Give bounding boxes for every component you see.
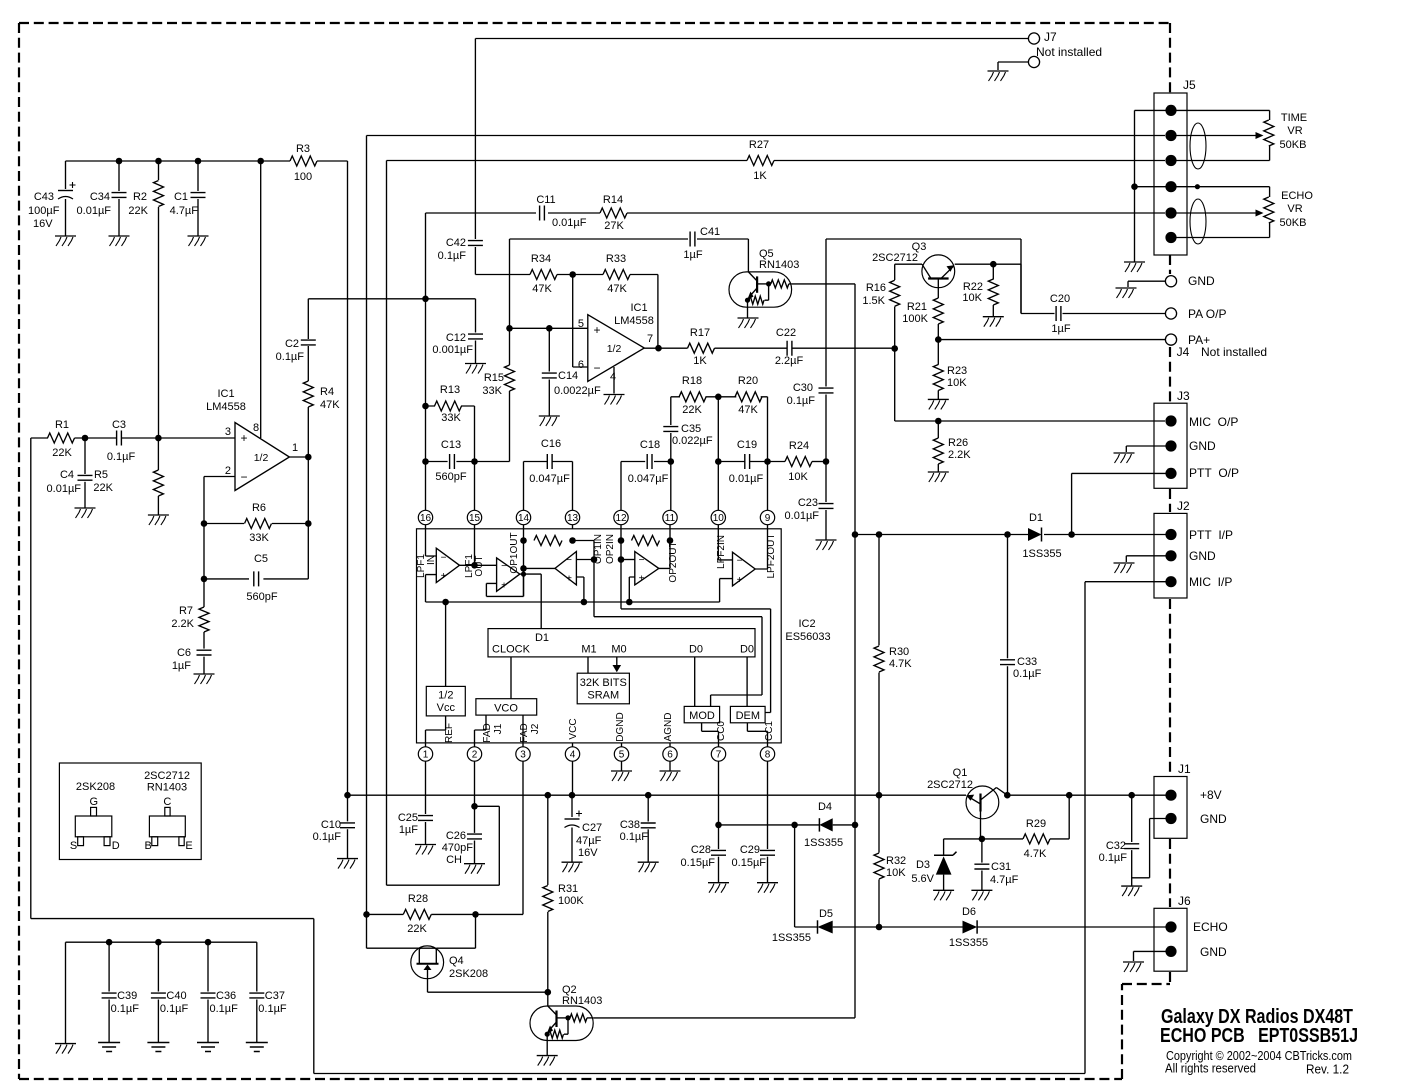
svg-text:0.1µF: 0.1µF [1099, 852, 1128, 864]
capacitor C34 [118, 161, 120, 191]
svg-text:IC2: IC2 [798, 618, 815, 630]
svg-text:D1: D1 [1029, 512, 1043, 524]
svg-text:0.022µF: 0.022µF [672, 435, 713, 447]
svg-text:PTT I/P: PTT I/P [1189, 528, 1233, 542]
junction R34-R33 [569, 271, 576, 278]
svg-text:J7: J7 [1044, 30, 1057, 44]
wire D1 signal vertical [520, 574, 541, 629]
ground C1 [188, 235, 209, 237]
junction R6-output-vert [305, 520, 312, 527]
op-amp IC2 T3 [555, 552, 576, 585]
junction pin14-res1 [520, 537, 527, 544]
wire J3 GND [1126, 446, 1165, 452]
svg-text:LM4558: LM4558 [206, 401, 246, 413]
wire MOD to pin7 [702, 723, 719, 743]
wire ECHO top [1176, 187, 1270, 197]
junction rail-C34 [116, 158, 123, 165]
capacitor C30 [819, 388, 834, 393]
wire pin13 to T3 [573, 541, 595, 560]
svg-text:0.1µF: 0.1µF [438, 250, 467, 262]
svg-text:J3: J3 [1177, 389, 1190, 403]
svg-text:5: 5 [619, 750, 625, 761]
svg-text:16V: 16V [578, 847, 598, 859]
connector J1 box [1154, 777, 1187, 839]
diode D4 [818, 818, 820, 831]
connector J2 pin MIC I/P [1165, 576, 1176, 587]
svg-text:1/2: 1/2 [438, 690, 453, 702]
arrow ECHO wiper [1256, 210, 1264, 217]
resistor IC2 internal 2 [632, 536, 660, 546]
junction pin2-R6 [201, 520, 208, 527]
wire TIME wiper [1176, 135, 1257, 137]
ground C36 [197, 1043, 219, 1052]
wire J5-pin2 net vertical [366, 136, 368, 915]
pin 7 IC2 [711, 747, 725, 761]
potentiometer ECHO VR [1264, 197, 1274, 223]
wire VCO to pin2 [475, 715, 487, 743]
wire opamp2 output [644, 347, 687, 349]
svg-text:R15: R15 [484, 372, 504, 384]
junction J5 pin4 gnd [1131, 183, 1138, 190]
cable ellipse 2 [1190, 199, 1206, 244]
pin 11 IC2 [663, 510, 677, 524]
svg-text:C35: C35 [681, 423, 701, 435]
resistor R5 [157, 438, 159, 470]
svg-text:0.1µF: 0.1µF [258, 1003, 287, 1015]
capacitor C36 [205, 939, 212, 946]
wire D3 jog [944, 839, 982, 855]
svg-text:GND: GND [1188, 274, 1215, 288]
junction C19-pin10 [715, 458, 722, 465]
block 32K BITS SRAM [577, 673, 629, 704]
svg-text:2SC2712: 2SC2712 [872, 252, 918, 264]
svg-text:C32: C32 [1106, 840, 1126, 852]
junction rail-Q1 [1004, 792, 1011, 799]
svg-text:DGND: DGND [615, 712, 626, 741]
wire R16 bottom [894, 307, 896, 349]
resistor R6 [204, 523, 308, 525]
ground opamp2 pin4 [604, 394, 625, 396]
svg-text:VR: VR [1287, 125, 1302, 137]
connector J3 pin PTT O/P [1165, 468, 1176, 479]
svg-text:ECHO: ECHO [1193, 920, 1228, 934]
svg-text:+: + [240, 431, 247, 445]
pin 15 IC2 [467, 510, 481, 524]
capacitor C4 [84, 438, 86, 474]
resistor R17 [688, 343, 715, 353]
transistor Q2 [530, 1006, 593, 1041]
svg-text:47K: 47K [320, 399, 340, 411]
capacitor C40 [155, 939, 162, 946]
ground C14 [539, 415, 560, 417]
op-amp IC1b [588, 315, 645, 382]
connector GND pin [1165, 276, 1176, 287]
capacitor C22 [787, 341, 792, 356]
connector J5 pin1 [1165, 105, 1176, 116]
wire ECHO wiper [1176, 212, 1257, 214]
svg-text:5.6V: 5.6V [911, 873, 934, 885]
svg-text:Q1: Q1 [953, 767, 968, 779]
resistor R14 [600, 208, 627, 218]
wire J7 line [475, 38, 1028, 40]
svg-text:E: E [185, 840, 192, 852]
ground C39 [98, 1043, 120, 1052]
svg-text:D0: D0 [740, 644, 754, 656]
ground C12 [465, 363, 486, 365]
svg-text:−: − [566, 555, 572, 566]
junction rail-C10 [344, 792, 351, 799]
wire OP1 + loop [486, 574, 523, 596]
wire R4/C2 vertical [307, 299, 309, 579]
wire opamp pin8 supply [260, 161, 262, 438]
ground J6 [1123, 961, 1144, 963]
connector J3 pin MIC O/P [1165, 415, 1176, 426]
package RN1403 outline [149, 816, 185, 837]
junction C3-R5 [155, 435, 162, 442]
svg-text:R20: R20 [738, 375, 758, 387]
svg-text:J2: J2 [1177, 499, 1190, 513]
junction R21-R23-PA+ [935, 336, 942, 343]
svg-text:RN1403: RN1403 [759, 259, 799, 271]
svg-text:0.01µF: 0.01µF [552, 217, 587, 229]
resistor IC2 internal 1 [534, 536, 562, 546]
ground C32 [1121, 885, 1142, 887]
svg-text:7: 7 [716, 750, 722, 761]
ground C34 [109, 235, 130, 237]
wire T3 out [524, 567, 556, 569]
svg-text:11: 11 [665, 513, 676, 524]
svg-text:J6: J6 [1178, 894, 1191, 908]
sheet dashed border (top/left/bottom) [19, 23, 1170, 1079]
svg-text:14: 14 [518, 513, 530, 524]
junction pin12-res2 [618, 537, 625, 544]
svg-text:7: 7 [647, 333, 653, 345]
wire CLOCK to VCO [510, 657, 512, 699]
connector J5 pin2 [1165, 130, 1176, 141]
svg-text:C38: C38 [620, 819, 640, 831]
svg-text:1µF: 1µF [1051, 323, 1070, 335]
ground R22 [983, 316, 1004, 318]
junction pin16-R13 [422, 403, 429, 410]
svg-text:0.15µF: 0.15µF [681, 857, 716, 869]
pin 1 IC2 [418, 747, 432, 761]
svg-text:C20: C20 [1050, 293, 1070, 305]
capacitor C31 [981, 839, 983, 863]
resistor R13 [426, 405, 475, 407]
block VCO [476, 699, 537, 715]
capacitor C33 [1007, 535, 1009, 659]
junction pin16-C13 [422, 458, 429, 465]
wire DEM to pin8 [747, 723, 767, 743]
svg-text:IC1: IC1 [630, 302, 647, 314]
svg-text:4.7K: 4.7K [889, 658, 912, 670]
svg-text:1K: 1K [753, 170, 767, 182]
ground C39 bus [55, 1043, 76, 1045]
svg-text:−: − [593, 361, 600, 375]
svg-text:2.2K: 2.2K [171, 618, 194, 630]
resistor R16 [890, 280, 900, 306]
wire D5/D6 line [795, 926, 1166, 928]
wire pin16 vertical [425, 213, 427, 511]
wire J5 pin4 stub [1135, 186, 1166, 188]
ground R26 [928, 471, 949, 473]
pin 2 IC2 [467, 747, 481, 761]
svg-text:27K: 27K [604, 220, 624, 232]
svg-text:1: 1 [292, 442, 298, 454]
ground D3 [933, 889, 954, 891]
resistor R2 [158, 161, 160, 180]
svg-text:R6: R6 [252, 502, 266, 514]
wire C30 top segment [826, 239, 1021, 314]
resistor R4 [303, 381, 313, 407]
svg-text:−: − [240, 470, 247, 484]
connector J2 pin GND [1165, 550, 1176, 561]
capacitor C32 [1131, 795, 1133, 842]
wire TIME top [1176, 110, 1270, 120]
svg-text:560pF: 560pF [246, 591, 277, 603]
svg-text:R21: R21 [907, 301, 927, 313]
capacitor C37 [256, 942, 258, 991]
svg-text:ECHO PCB EPT0SSB51J: ECHO PCB EPT0SSB51J [1160, 1025, 1358, 1047]
connector J5 pin5 [1165, 207, 1176, 218]
wire Q5 base line [792, 284, 855, 1018]
svg-text:D3: D3 [916, 859, 930, 871]
svg-text:C3: C3 [112, 419, 126, 431]
svg-text:C41: C41 [700, 226, 720, 238]
svg-text:0.1µF: 0.1µF [787, 395, 816, 407]
wire PTT line [855, 534, 1166, 536]
svg-text:+: + [593, 323, 600, 337]
resistor R21 [937, 288, 939, 298]
resistor R15 [505, 365, 515, 391]
resistor R30 [878, 535, 880, 646]
svg-text:GND: GND [1200, 945, 1227, 959]
svg-text:C12: C12 [446, 332, 466, 344]
svg-text:8: 8 [253, 422, 259, 434]
svg-text:M1: M1 [581, 644, 596, 656]
svg-text:R14: R14 [603, 194, 623, 206]
package info box [59, 763, 201, 860]
svg-text:R4: R4 [320, 386, 334, 398]
capacitor C42 [474, 39, 476, 240]
svg-text:VR: VR [1287, 203, 1302, 215]
svg-text:2.2µF: 2.2µF [775, 355, 804, 367]
wire T4 + jog [629, 577, 635, 602]
junction pin15-LPF1out [471, 562, 478, 569]
ground C27 [562, 861, 583, 863]
junction pin2-C5 [201, 576, 208, 583]
junction Q1 base [979, 836, 986, 843]
junction D4-vert [791, 822, 798, 829]
svg-text:47K: 47K [607, 283, 627, 295]
svg-text:2SC2712: 2SC2712 [144, 770, 190, 782]
svg-text:C33: C33 [1017, 656, 1037, 668]
svg-text:33K: 33K [482, 385, 502, 397]
junction PTT-C33 [1004, 531, 1011, 538]
junction T3 minus [591, 556, 598, 563]
svg-text:J1: J1 [493, 723, 504, 734]
wire T4 minus [621, 559, 635, 561]
pin 13 IC2 [565, 510, 579, 524]
junction R28 left [363, 911, 370, 918]
junction rail-C38 [645, 792, 652, 799]
svg-text:−: − [737, 556, 743, 567]
svg-text:4.7µF: 4.7µF [170, 205, 199, 217]
connector J2 box [1154, 513, 1187, 598]
svg-text:0.01µF: 0.01µF [729, 473, 764, 485]
svg-text:J2: J2 [530, 723, 541, 734]
svg-text:C13: C13 [441, 439, 461, 451]
svg-text:0.1µF: 0.1µF [107, 451, 136, 463]
svg-text:ES56033: ES56033 [785, 631, 830, 643]
junction Q3-R22 [990, 261, 997, 268]
ground R23 [928, 398, 949, 400]
svg-text:R33: R33 [606, 253, 626, 265]
svg-text:CLOCK: CLOCK [492, 644, 531, 656]
svg-text:C23: C23 [798, 497, 818, 509]
ground C10 [337, 858, 358, 860]
capacitor C28 [711, 850, 726, 855]
wire C41 line [510, 239, 749, 272]
svg-text:GND: GND [1189, 439, 1216, 453]
svg-text:D6: D6 [962, 906, 976, 918]
svg-text:9: 9 [765, 513, 771, 524]
cable ellipse 1 [1190, 123, 1206, 169]
junction C14-pin5 [546, 325, 553, 332]
op-amp IC2 LPF2 [733, 552, 756, 586]
svg-text:2SC2712: 2SC2712 [927, 779, 973, 791]
svg-text:R18: R18 [682, 375, 702, 387]
ground GND pin [1116, 287, 1137, 289]
svg-text:C27: C27 [582, 822, 602, 834]
capacitor C27 [571, 795, 573, 817]
svg-text:100K: 100K [902, 313, 928, 325]
svg-text:OP2IN: OP2IN [605, 534, 616, 564]
wire T3 minus net down [594, 560, 762, 707]
zener D3 [934, 852, 957, 856]
svg-text:33K: 33K [249, 532, 269, 544]
junction C22-R16 [891, 345, 898, 352]
wire pin12 inside [621, 529, 771, 713]
svg-text:2.2K: 2.2K [948, 449, 971, 461]
junction pin11-res2 [667, 537, 674, 544]
svg-text:−: − [441, 553, 447, 564]
svg-text:GND: GND [1200, 812, 1227, 826]
svg-text:SRAM: SRAM [587, 690, 619, 702]
svg-text:1SS355: 1SS355 [804, 837, 843, 849]
svg-text:8: 8 [765, 750, 771, 761]
svg-text:R30: R30 [889, 646, 909, 658]
wire LPF1 + jog [426, 575, 437, 602]
svg-text:4.7K: 4.7K [1024, 848, 1047, 860]
svg-text:PA O/P: PA O/P [1188, 307, 1226, 321]
svg-text:0.1µF: 0.1µF [160, 1003, 189, 1015]
connector J5 pin4 [1165, 181, 1176, 192]
svg-text:ECHO: ECHO [1281, 190, 1313, 202]
op-amp IC2 LPF1 [436, 548, 459, 582]
wire R16 top [895, 264, 922, 280]
svg-text:C18: C18 [640, 439, 660, 451]
wire pin8 to C29 [767, 761, 769, 849]
ground Q5 [738, 317, 759, 319]
svg-text:J1: J1 [1178, 762, 1191, 776]
svg-text:All rights reserved: All rights reserved [1165, 1062, 1256, 1076]
capacitor C26 [474, 806, 476, 833]
svg-text:−: − [501, 561, 507, 572]
svg-text:C19: C19 [737, 439, 757, 451]
junction PTT-R30 [876, 531, 883, 538]
resistor R22 [992, 264, 994, 279]
resistor R26 [937, 421, 939, 438]
svg-text:560pF: 560pF [435, 471, 466, 483]
svg-text:0.1µF: 0.1µF [1013, 668, 1042, 680]
ground J5 [1124, 261, 1145, 263]
svg-text:MIC I/P: MIC I/P [1189, 575, 1232, 589]
svg-text:Not installed: Not installed [1036, 45, 1102, 59]
pin 4 IC2 [565, 747, 579, 761]
connector J5 pin6 [1165, 232, 1176, 243]
svg-text:PTT O/P: PTT O/P [1189, 466, 1239, 480]
ground C4 [75, 507, 96, 509]
svg-text:IC1: IC1 [217, 388, 234, 400]
capacitor C3 [117, 431, 122, 446]
svg-text:22K: 22K [52, 447, 72, 459]
wire C39 bus [66, 942, 257, 1043]
junction C19-R20 [764, 458, 771, 465]
wire D4-D5 vertical [794, 825, 796, 927]
capacitor C6 [203, 632, 205, 649]
wire feedback to pin6 [573, 275, 588, 368]
svg-text:DEM: DEM [736, 710, 760, 722]
svg-text:32K BITS: 32K BITS [580, 677, 627, 689]
junction pin13-res1 [569, 537, 576, 544]
svg-text:2: 2 [225, 465, 231, 477]
svg-text:1SS355: 1SS355 [772, 932, 811, 944]
svg-text:10K: 10K [886, 867, 906, 879]
svg-text:10K: 10K [788, 471, 808, 483]
ground Q2 [537, 1055, 558, 1057]
svg-text:0.1µF: 0.1µF [313, 831, 342, 843]
svg-text:100K: 100K [558, 895, 584, 907]
wire J5-pin3 net vertical [386, 161, 388, 886]
svg-text:2SK208: 2SK208 [76, 781, 115, 793]
svg-text:0.047µF: 0.047µF [628, 473, 669, 485]
wire pin11 inside [659, 529, 670, 569]
wire R3 to bottom rail (vertical) [347, 161, 349, 795]
svg-text:0.15µF: 0.15µF [732, 857, 767, 869]
wire CH loop [387, 806, 500, 885]
junction D1-PTTOP [1068, 531, 1075, 538]
pin 8 IC2 [760, 747, 774, 761]
junction rail-pin8 [257, 158, 264, 165]
svg-text:C16: C16 [541, 438, 561, 450]
svg-text:M0: M0 [611, 644, 626, 656]
ground C26 [464, 863, 485, 865]
junction C28-D4line [715, 822, 722, 829]
connector J6 box [1154, 908, 1187, 971]
junction D5-R32 [876, 924, 883, 931]
svg-text:1µF: 1µF [172, 660, 191, 672]
wire Q4 drain [436, 914, 475, 948]
ground J7 [988, 70, 1009, 72]
junction pin14-T3out [520, 565, 527, 572]
resistor R18 [679, 392, 706, 402]
ground C28 [708, 882, 729, 884]
capacitor C19 [718, 461, 767, 463]
svg-text:6: 6 [578, 359, 584, 371]
svg-text:15: 15 [469, 513, 481, 524]
resistor R28 [367, 913, 404, 915]
